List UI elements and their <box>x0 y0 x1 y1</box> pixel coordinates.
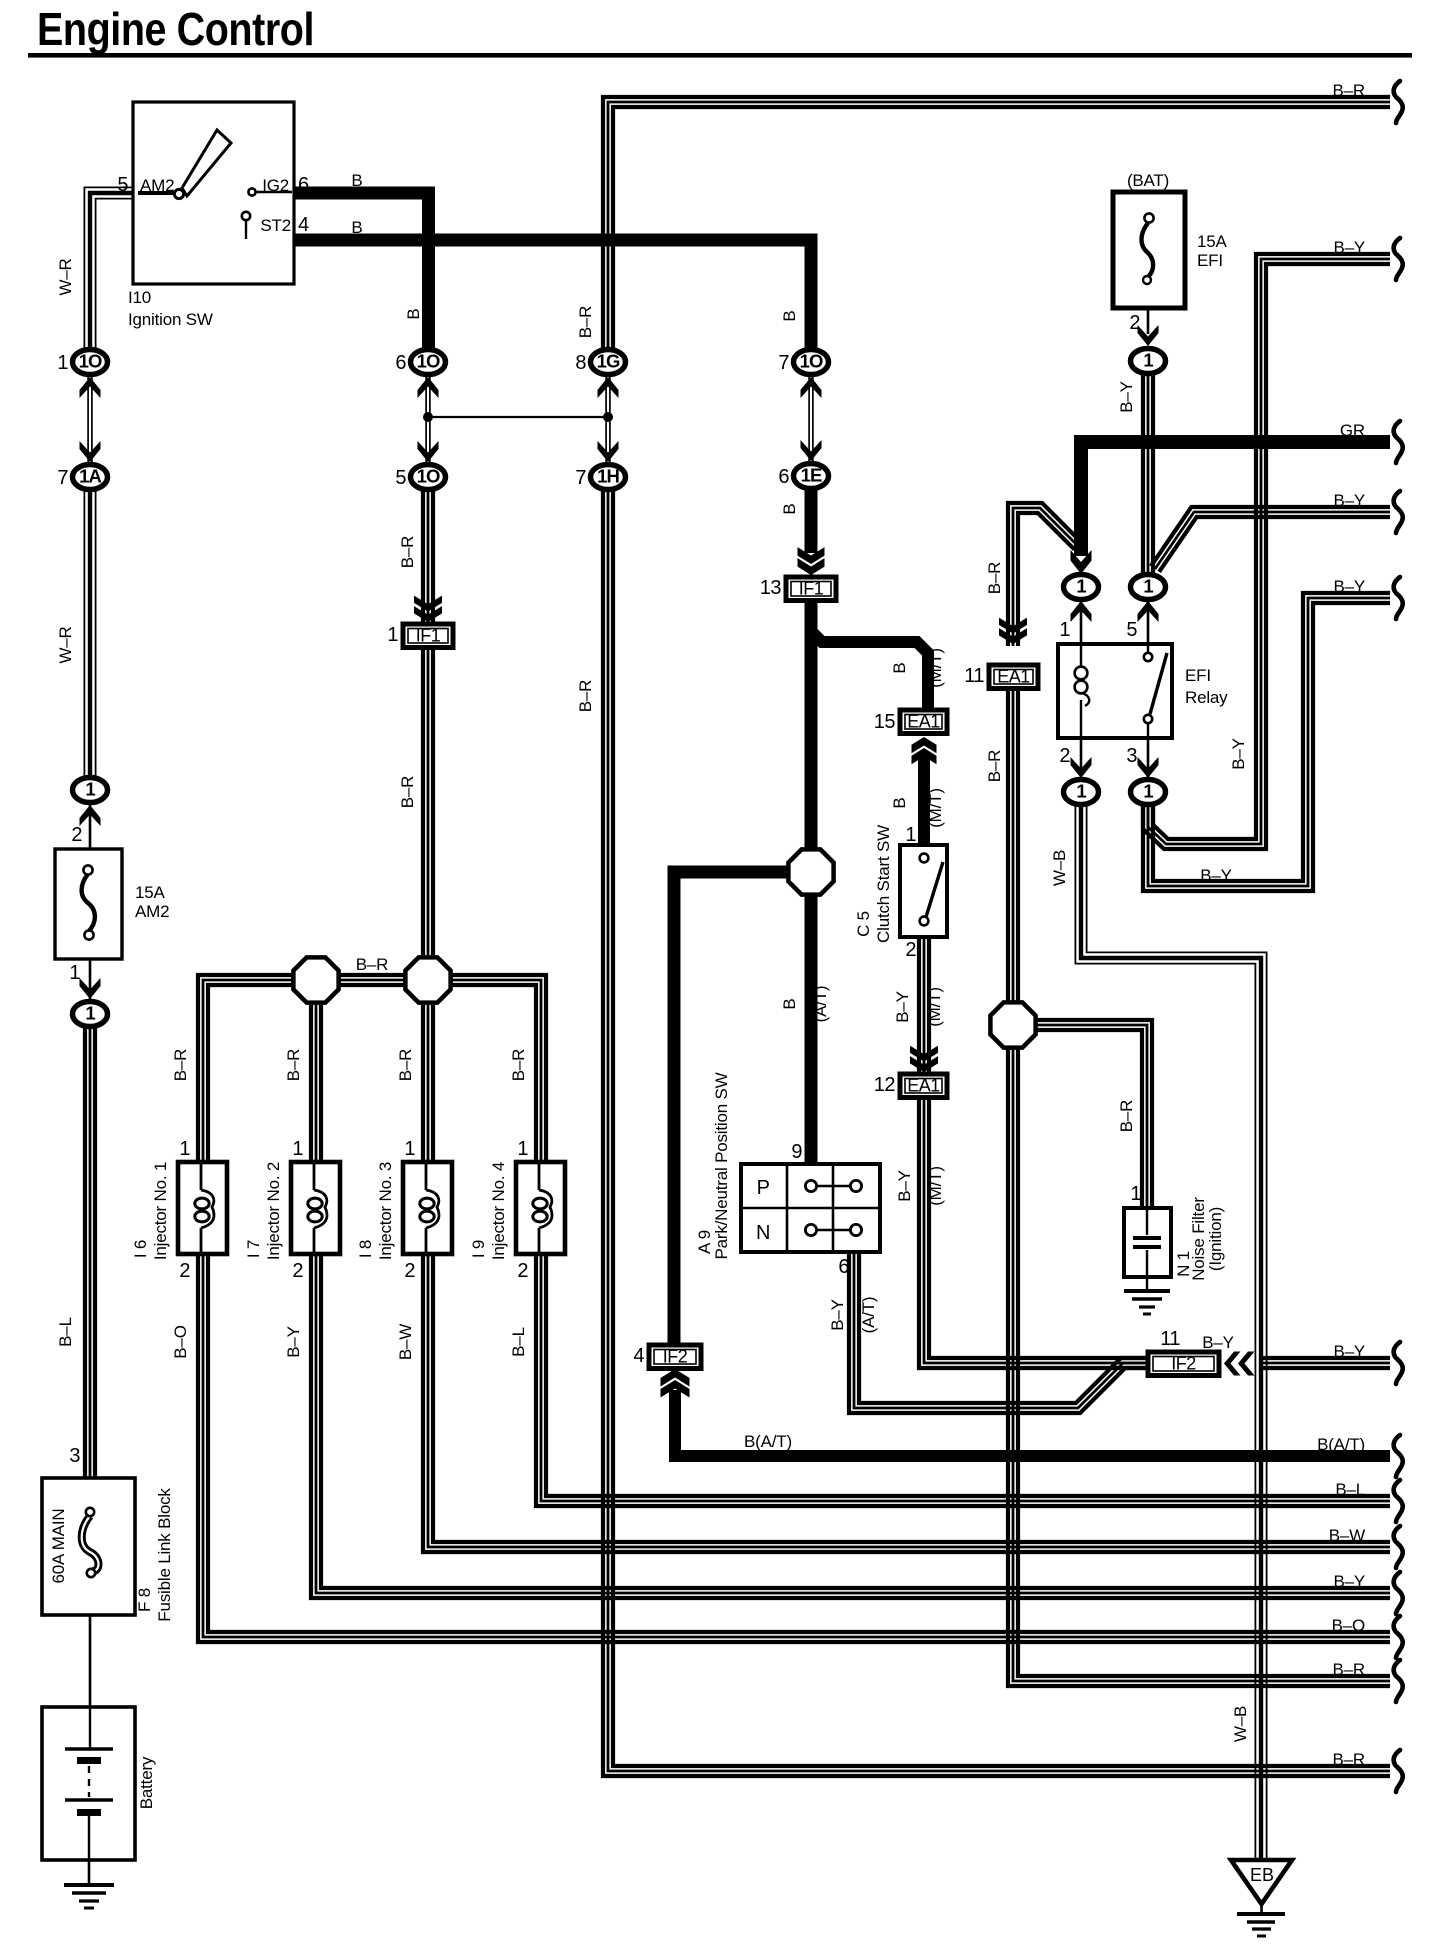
wire B (M/T) branch IF1 to EA1-15 <box>811 631 928 712</box>
label B-R injector col 541 <box>509 1049 528 1081</box>
title rule <box>28 53 1412 58</box>
label B 1E <box>780 503 799 514</box>
svg-text:1: 1 <box>85 779 95 800</box>
label AM2 <box>140 176 174 195</box>
ignition switch I10 box <box>133 102 294 284</box>
label B col4 <box>780 310 799 321</box>
pin 1 fuse AM2 <box>69 962 80 984</box>
wire link 7-1O to 6-1E <box>809 374 813 463</box>
label (M/T) below EA1-15 <box>926 788 945 828</box>
continuation hook B-Y mid2 <box>1394 577 1403 619</box>
arrow into 1O col1 <box>80 377 101 398</box>
wire B-R from 5-1O to IF1 <box>423 489 433 624</box>
junction dot left <box>423 412 433 422</box>
label B-R col2 lower <box>398 776 417 808</box>
pin 6 IG2 <box>298 174 309 196</box>
svg-text:B–O: B–O <box>1332 1616 1365 1635</box>
connector 1 below fuse AM2 <box>73 1002 108 1027</box>
continuation hook B-O <box>1394 1616 1403 1658</box>
label B-Y mid1 right <box>1333 491 1365 510</box>
svg-text:1: 1 <box>69 962 80 984</box>
svg-text:B–Y: B–Y <box>1202 1333 1234 1352</box>
pin 2 fuse EFI <box>1129 312 1140 334</box>
arrow into relay conn 1 <box>1071 601 1092 622</box>
svg-text:6: 6 <box>395 352 406 374</box>
label W-B bottom <box>1231 1706 1250 1742</box>
fusible link block F8 60A MAIN <box>42 1478 135 1615</box>
svg-text:B–R: B–R <box>1333 81 1365 100</box>
injector I8 Injector No. 3 <box>403 1162 452 1254</box>
svg-text:7: 7 <box>57 467 68 489</box>
label Injector No. 2 <box>264 1162 283 1260</box>
label B-Y right column <box>1229 738 1248 770</box>
ref I9 <box>469 1240 488 1258</box>
wire B-Y fuse EFI to relay pin 5 <box>1143 373 1153 577</box>
svg-text:EA1: EA1 <box>997 666 1030 686</box>
svg-text:1O: 1O <box>417 466 440 487</box>
label Ignition SW <box>128 310 213 329</box>
wire wire IG2 terminal stub <box>255 191 292 193</box>
svg-text:EB: EB <box>1250 1865 1274 1885</box>
svg-text:B–Y: B–Y <box>895 1170 914 1202</box>
svg-text:(BAT): (BAT) <box>1127 171 1169 190</box>
label Clutch Start SW <box>874 825 893 943</box>
junction octagon injector 3 <box>405 957 450 1002</box>
arrow GR into relay conn 1 <box>1071 550 1092 574</box>
label B-Y relay pin3 run <box>1200 866 1232 885</box>
svg-text:7: 7 <box>778 352 789 374</box>
label (M/T) below EA1-12 <box>926 1166 945 1206</box>
injector I9 Injector No. 4 <box>516 1162 565 1254</box>
svg-text:W–B: W–B <box>1050 850 1069 886</box>
svg-text:B–R: B–R <box>576 306 595 338</box>
terminal ST2 <box>242 212 250 220</box>
svg-text:B–Y: B–Y <box>284 1326 303 1358</box>
svg-text:B–R: B–R <box>1333 1750 1365 1769</box>
svg-text:15A: 15A <box>1197 232 1228 251</box>
label (A/T) thick <box>811 986 830 1023</box>
svg-text:1: 1 <box>1143 781 1153 802</box>
svg-text:Battery: Battery <box>137 1756 156 1809</box>
svg-text:W–B: W–B <box>1231 1706 1250 1742</box>
svg-text:Injector No. 2: Injector No. 2 <box>264 1162 283 1260</box>
ref F 8 <box>135 1588 154 1612</box>
label B-Y injector 2 <box>284 1326 303 1358</box>
label B-R col3 top <box>576 306 595 338</box>
svg-text:2: 2 <box>292 1260 303 1282</box>
svg-text:B(A/T): B(A/T) <box>1317 1435 1365 1454</box>
label B-R bus <box>356 955 388 974</box>
wire B-R from octagon to noise filter N1 <box>1035 1020 1152 1208</box>
arrow into connector below fuse AM2 <box>80 978 101 999</box>
wire link 1O to 1A <box>88 374 92 464</box>
wire B-Y (M/T) EA1-12 to IF2-11 <box>919 1094 1150 1368</box>
label B-Y clutch <box>893 991 912 1023</box>
svg-text:12: 12 <box>874 1074 896 1096</box>
svg-text:Relay: Relay <box>1185 688 1228 707</box>
svg-text:B–Y: B–Y <box>893 991 912 1023</box>
pin 3 F8 <box>69 1445 80 1467</box>
wire W-R from 1A to fuse AM2 <box>84 489 95 779</box>
svg-text:B: B <box>890 662 909 673</box>
pin 6 A9 <box>838 1256 849 1278</box>
label Injector No. 1 <box>151 1162 170 1260</box>
wire B-Y (A/T) A9 pin 6 to IF2-11 <box>849 1254 1150 1413</box>
svg-text:B–Y: B–Y <box>1200 866 1232 885</box>
connector 1 fuse EFI <box>1131 349 1166 374</box>
svg-text:B(A/T): B(A/T) <box>744 1432 792 1451</box>
svg-text:2: 2 <box>517 1260 528 1282</box>
svg-text:IF1: IF1 <box>799 578 824 598</box>
pin 5 relay <box>1126 619 1137 641</box>
wire B (M/T) from EA1-15 arrow to clutch start SW pin 1 <box>918 755 930 847</box>
label B-Y mid2 right <box>1333 577 1365 596</box>
svg-text:1: 1 <box>179 1138 190 1160</box>
connector 1H <box>575 465 625 490</box>
pin 1 I6 <box>179 1138 190 1160</box>
svg-text:Injector No. 1: Injector No. 1 <box>151 1162 170 1260</box>
svg-text:B–Y: B–Y <box>1333 1572 1365 1591</box>
svg-text:2: 2 <box>71 824 82 846</box>
arrow into IF1-13 <box>798 547 825 575</box>
svg-text:Engine Control: Engine Control <box>37 3 314 55</box>
svg-text:1A: 1A <box>79 466 101 487</box>
wire lead relay pin 2 <box>1080 738 1083 781</box>
label ST2 <box>260 216 291 235</box>
label B-Y at IF2 <box>1202 1333 1234 1352</box>
arrow into 7-1O <box>801 377 822 398</box>
label EFI relay line2 <box>1185 688 1228 707</box>
wire B-R injector bus <box>198 975 546 1162</box>
continuation hook B-Y top <box>1394 238 1403 280</box>
svg-text:2: 2 <box>905 939 916 961</box>
svg-text:6: 6 <box>838 1256 849 1278</box>
connector 1A <box>57 465 107 490</box>
svg-text:B: B <box>351 171 362 190</box>
label B-Y A9 <box>828 1299 847 1331</box>
terminal IG2 <box>248 188 255 195</box>
svg-text:(Ignition): (Ignition) <box>1206 1207 1225 1271</box>
wire B-R from relay junction to EA1-11 <box>1008 503 1082 646</box>
ref A 9 <box>695 1230 714 1254</box>
arrow into relay conn 2 <box>1071 757 1092 778</box>
svg-text:1: 1 <box>517 1138 528 1160</box>
label B-R injector col 428 <box>396 1049 415 1081</box>
pin 1 clutch SW <box>905 824 916 846</box>
title Engine Control <box>37 3 314 55</box>
ground below N1 <box>1124 1277 1170 1314</box>
connector 1 relay pin 1 <box>1064 575 1099 600</box>
svg-text:Injector No. 4: Injector No. 4 <box>489 1162 508 1260</box>
arrow into 6-1O <box>418 377 439 398</box>
wire B thick from ST2 pin 4 <box>294 240 811 351</box>
svg-text:I 7: I 7 <box>244 1240 263 1258</box>
label EFI fuse <box>1197 251 1223 270</box>
svg-text:1: 1 <box>85 1003 95 1024</box>
wire lead relay pin 5 <box>1147 600 1150 644</box>
label Park/Neutral Position SW <box>712 1072 731 1259</box>
svg-text:(M/T): (M/T) <box>926 788 945 828</box>
svg-text:B–L: B–L <box>1335 1480 1365 1499</box>
ref I8 <box>356 1240 375 1258</box>
svg-text:B–W: B–W <box>1329 1526 1365 1545</box>
svg-text:I 9: I 9 <box>469 1240 488 1258</box>
arrow into EA1-11 <box>999 618 1027 644</box>
wire lead relay pin 1 <box>1080 600 1083 644</box>
label EFI relay line1 <box>1185 666 1211 685</box>
label B-L right <box>1335 1480 1365 1499</box>
wire W-B from relay pin 2 to ground EB <box>1075 803 1266 1860</box>
wire lead fuse EFI pin 2 <box>1147 282 1150 334</box>
svg-text:AM2: AM2 <box>140 176 174 195</box>
svg-text:B–R: B–R <box>396 1049 415 1081</box>
arrow into connector fuse EFI <box>1138 325 1159 346</box>
wire junction wire between columns <box>428 416 608 418</box>
svg-text:B–L: B–L <box>509 1327 528 1357</box>
svg-text:EA1: EA1 <box>907 1075 940 1095</box>
fuse 15A AM2 <box>55 849 122 959</box>
label B-Y low right <box>1333 1572 1365 1591</box>
svg-text:1O: 1O <box>800 351 823 372</box>
pin 1 I8 <box>404 1138 415 1160</box>
continuation hook B-R low2 <box>1394 1750 1403 1792</box>
wire link 6-1O to 5-1O <box>426 374 430 464</box>
arrow into EA1-12 <box>910 1046 938 1072</box>
svg-text:5: 5 <box>1126 619 1137 641</box>
label B-R col2 upper <box>398 536 417 568</box>
svg-text:IF2: IF2 <box>1171 1353 1196 1373</box>
battery <box>42 1707 135 1860</box>
label Noise Filter <box>1189 1197 1208 1281</box>
svg-text:1: 1 <box>1076 576 1086 597</box>
label Fusible Link Block <box>155 1488 174 1622</box>
label W-R lower <box>56 626 75 663</box>
wire B-R from EA1-11 to octagon <box>1008 687 1018 1003</box>
svg-text:1H: 1H <box>597 466 619 487</box>
label (A/T) A9 <box>859 1297 878 1334</box>
label B-L injector 4 <box>509 1327 528 1357</box>
pin 2 relay <box>1059 745 1070 767</box>
wire B-Y relay pin 3 branch to top right <box>1143 254 1390 849</box>
label B IG2 <box>351 171 362 190</box>
svg-text:2: 2 <box>179 1260 190 1282</box>
wire B thick from 1E to IF1-13 <box>805 488 818 553</box>
arrow into relay conn 3 <box>1138 757 1159 778</box>
wire B-R branch to injector 2 <box>311 980 321 1162</box>
label B-L battery wire <box>56 1317 75 1347</box>
junction octagon B(A/T) <box>788 849 833 894</box>
pin 1 I9 <box>517 1138 528 1160</box>
svg-text:13: 13 <box>760 577 782 599</box>
connector 1 relay pin 3 <box>1131 780 1166 805</box>
svg-text:9: 9 <box>791 1141 802 1163</box>
svg-text:1: 1 <box>1130 1183 1141 1205</box>
pin 2 fuse AM2 <box>71 824 82 846</box>
svg-text:3: 3 <box>69 1445 80 1467</box>
label B-R low1 right <box>1333 1660 1365 1679</box>
label B col2 <box>404 308 423 319</box>
wire B-O from injector 1 to right edge <box>198 1254 1390 1642</box>
wire link 8-1G to 7-1H <box>606 374 610 464</box>
park/neutral position switch A9 <box>741 1164 880 1252</box>
ref I7 <box>244 1240 263 1258</box>
label B-R below EA1-11 <box>985 750 1004 782</box>
svg-text:B–R: B–R <box>985 750 1004 782</box>
svg-text:Park/Neutral Position SW: Park/Neutral Position SW <box>712 1072 731 1259</box>
junction octagon injector 2 <box>293 957 338 1002</box>
wire wire AM2 terminal stub <box>138 191 176 195</box>
label B above EA1-15 <box>890 662 909 673</box>
label B-Y fuse EFI <box>1117 381 1136 413</box>
junction octagon B-R <box>990 1002 1035 1047</box>
svg-text:15A: 15A <box>135 883 166 902</box>
svg-text:6: 6 <box>778 466 789 488</box>
label (M/T) clutch <box>925 987 944 1027</box>
svg-text:1G: 1G <box>597 351 620 372</box>
connector 1G <box>575 350 625 375</box>
continuation hook B-Y low <box>1394 1572 1403 1614</box>
svg-text:1: 1 <box>905 824 916 846</box>
svg-text:B–R: B–R <box>1117 1100 1136 1132</box>
connector 1 above fuse AM2 <box>73 778 108 803</box>
wire lead relay pin 3 <box>1147 738 1150 781</box>
continuation hook B(A/T) <box>1394 1435 1403 1477</box>
svg-text:Ignition SW: Ignition SW <box>128 310 213 329</box>
ref C 5 <box>854 911 873 937</box>
label GR right <box>1340 421 1365 440</box>
svg-text:IF1: IF1 <box>416 625 441 645</box>
ignition switch lever <box>174 130 231 199</box>
svg-text:6: 6 <box>298 174 309 196</box>
svg-text:11: 11 <box>964 665 984 687</box>
svg-text:EFI: EFI <box>1185 666 1211 685</box>
svg-text:W–R: W–R <box>56 626 75 663</box>
svg-text:B–R: B–R <box>1333 1660 1365 1679</box>
continuation hook B-L <box>1394 1480 1403 1522</box>
wire W-R from ignition SW pin 5 AM2 to 1O <box>84 187 133 352</box>
wire B thick from IG2 pin 6 <box>294 193 429 351</box>
arrow into IF2-11 <box>1224 1352 1255 1376</box>
wire B thick from IF1-13 to octagon <box>805 598 818 850</box>
svg-text:1: 1 <box>1143 350 1153 371</box>
pin 1 N1 <box>1130 1183 1141 1205</box>
continuation hook B-Y IF2 <box>1394 1342 1403 1384</box>
connector IF1 pin 13 <box>760 577 836 601</box>
svg-text:B–R: B–R <box>171 1049 190 1081</box>
EFI relay box <box>1058 644 1172 738</box>
svg-text:60A MAIN: 60A MAIN <box>49 1509 68 1584</box>
label B-O right <box>1332 1616 1365 1635</box>
pin 2 I6 <box>179 1260 190 1282</box>
svg-text:2: 2 <box>1059 745 1070 767</box>
arrow into relay conn 5 <box>1138 601 1159 622</box>
continuation hook B-Y mid1 <box>1394 491 1403 533</box>
svg-text:B–Y: B–Y <box>1333 1342 1365 1361</box>
svg-text:I 8: I 8 <box>356 1240 375 1258</box>
connector 1 relay pin 5 <box>1131 575 1166 600</box>
svg-text:B: B <box>780 503 799 514</box>
label B-R col3 mid <box>576 680 595 712</box>
arrow into IF2-4 <box>661 1369 690 1397</box>
label B-R injector col 316 <box>284 1049 303 1081</box>
svg-text:B–R: B–R <box>576 680 595 712</box>
connector 1O column 2 bottom <box>395 465 445 490</box>
svg-text:4: 4 <box>298 214 309 236</box>
svg-text:15: 15 <box>874 711 896 733</box>
connector EA1 pin 11 <box>964 665 1038 689</box>
svg-text:B–L: B–L <box>56 1317 75 1347</box>
arrow into 5-1O <box>418 441 439 462</box>
wire B-R from octagon to bottom right run <box>1008 1047 1390 1686</box>
wire B-L from injector 4 to right edge <box>536 1254 1390 1506</box>
label (BAT) <box>1127 171 1169 190</box>
pin 5 AM2 <box>117 174 128 196</box>
svg-text:(M/T): (M/T) <box>925 987 944 1027</box>
pin 2 I9 <box>517 1260 528 1282</box>
svg-text:B–R: B–R <box>509 1049 528 1081</box>
svg-text:ST2: ST2 <box>260 216 291 235</box>
svg-text:I 6: I 6 <box>131 1240 150 1258</box>
connector 1O column 4 <box>778 350 828 375</box>
svg-text:1: 1 <box>57 352 68 374</box>
label B(A/T) left <box>744 1432 792 1451</box>
wire B-L from fuse AM2 to fusible link F8 pin 3 <box>85 1026 95 1478</box>
svg-text:AM2: AM2 <box>135 902 169 921</box>
svg-text:1E: 1E <box>801 465 822 486</box>
label B-Y IF2 right <box>1333 1342 1365 1361</box>
label B-R injector col 203 <box>171 1049 190 1081</box>
wire B(A/T) thick octagon to A9 pin 9 <box>805 894 818 1166</box>
svg-text:Clutch Start SW: Clutch Start SW <box>874 825 893 943</box>
svg-text:5: 5 <box>117 174 128 196</box>
label B below EA1-15 <box>890 797 909 808</box>
svg-text:1: 1 <box>292 1138 303 1160</box>
connector EA1 pin 15 <box>874 710 947 734</box>
svg-text:B–Y: B–Y <box>828 1299 847 1331</box>
svg-text:B–Y: B–Y <box>1333 238 1365 257</box>
label B A/T <box>780 998 799 1009</box>
svg-text:(A/T): (A/T) <box>811 986 830 1023</box>
wire B-Y from injector 2 to right edge <box>311 1254 1390 1598</box>
continuation hook B-R low1 <box>1394 1660 1403 1702</box>
svg-text:5: 5 <box>395 467 406 489</box>
wire lead fuse AM2 pin 1 to connector <box>89 957 92 1003</box>
svg-text:Injector No. 3: Injector No. 3 <box>376 1162 395 1260</box>
label B-Y top right <box>1333 238 1365 257</box>
svg-text:1: 1 <box>404 1138 415 1160</box>
label B-R top right <box>1333 81 1365 100</box>
label B-R to N1 <box>1117 1100 1136 1132</box>
wire B-Y (M/T) clutch SW pin 2 to EA1-12 <box>919 935 929 1076</box>
wire wire ST2 terminal stub <box>245 220 247 239</box>
arrow into EA1-15 from below <box>912 737 937 764</box>
ground EB <box>1231 1860 1292 1936</box>
label B-Y below EA1-12 <box>895 1170 914 1202</box>
pin 2 clutch SW <box>905 939 916 961</box>
noise filter N1 <box>1124 1208 1171 1277</box>
wire B-R from 1G to right (top run) <box>603 97 1390 352</box>
svg-text:B–R: B–R <box>985 562 1004 594</box>
svg-text:N: N <box>756 1222 770 1244</box>
label B-R above EA1-11 <box>985 562 1004 594</box>
connector IF2 pin 4 <box>633 1345 701 1369</box>
svg-text:B–Y: B–Y <box>1117 381 1136 413</box>
svg-text:B–O: B–O <box>171 1325 190 1358</box>
svg-text:2: 2 <box>404 1260 415 1282</box>
pin 4 ST2 <box>298 214 309 236</box>
arrow into 1H <box>598 441 619 462</box>
svg-text:1: 1 <box>1059 619 1070 641</box>
